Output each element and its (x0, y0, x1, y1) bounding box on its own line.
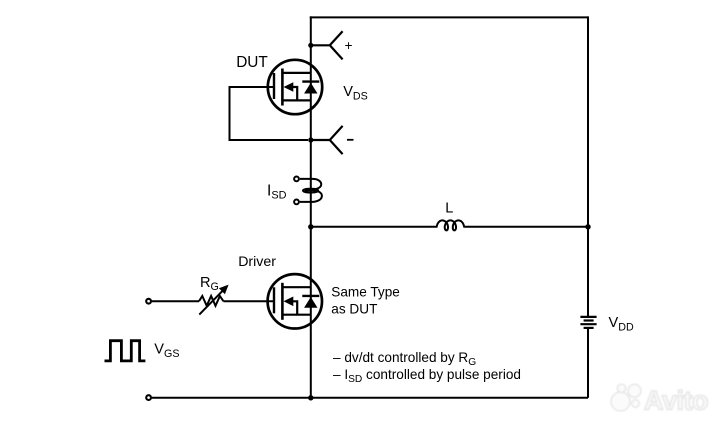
wire L branch left (311, 226, 438, 228)
transistor DUT (mosfet with body diode) (268, 60, 322, 114)
svg-text:L: L (445, 201, 453, 217)
svg-text:DUT: DUT (236, 54, 268, 71)
wire main vertical (310, 16, 312, 397)
resistor RG (variable) (199, 296, 223, 306)
node VDS- / gate loop junction (308, 137, 313, 142)
node bottom junction (308, 395, 313, 400)
transistor Driver (mosfet with body diode) (268, 274, 322, 328)
label minus (347, 139, 354, 141)
svg-text:ISD: ISD (267, 183, 287, 202)
wire top rail (310, 16, 588, 18)
node L branch (308, 224, 313, 229)
inductor L (437, 220, 464, 230)
svg-text:Avito: Avito (644, 386, 708, 416)
svg-text:VDD: VDD (609, 315, 634, 333)
svg-text:Driver: Driver (238, 254, 276, 270)
wire bottom rail (152, 397, 588, 399)
pulse waveform V_GS (105, 341, 146, 361)
probe VDS- (311, 126, 343, 154)
svg-text:RG: RG (200, 275, 219, 293)
RG arrow (199, 290, 223, 314)
wire right rail lower (587, 328, 589, 398)
svg-text:– ISD controlled by pulse peri: – ISD controlled by pulse period (333, 367, 521, 385)
svg-text:+: + (345, 38, 353, 53)
svg-text:VGS: VGS (154, 342, 179, 360)
wire DUT gate-source loop (230, 87, 309, 140)
node L/right-rail junction (585, 224, 590, 229)
svg-text:VDS: VDS (343, 84, 368, 102)
wire RG to driver gate (223, 300, 275, 302)
terminal pulse input (146, 299, 151, 304)
node VDS+ (308, 43, 313, 48)
svg-text:Same Type: Same Type (331, 284, 400, 299)
current probe I_SD (294, 177, 322, 205)
wire terminal to RG (152, 300, 199, 302)
svg-text:as DUT: as DUT (331, 301, 377, 316)
svg-text:– dv/dt controlled by RG: – dv/dt controlled by RG (333, 350, 476, 368)
terminal bottom-left (146, 395, 151, 400)
wire L branch right (463, 226, 588, 228)
wire right rail upper (587, 16, 589, 316)
probe VDS+ (311, 31, 343, 59)
battery V_DD (580, 317, 596, 328)
